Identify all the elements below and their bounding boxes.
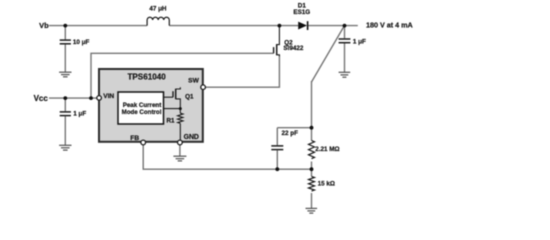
- svg-text:15 kΩ: 15 kΩ: [318, 180, 335, 187]
- svg-text:GND: GND: [184, 134, 199, 141]
- svg-text:R1: R1: [166, 118, 175, 125]
- svg-text:10 μF: 10 μF: [73, 39, 90, 46]
- svg-text:2.21 MΩ: 2.21 MΩ: [315, 146, 339, 153]
- svg-text:180 V at 4 mA: 180 V at 4 mA: [366, 21, 413, 30]
- svg-text:ES1G: ES1G: [293, 9, 310, 16]
- svg-text:Vb: Vb: [39, 21, 49, 30]
- svg-text:FB: FB: [130, 135, 139, 142]
- svg-text:Mode Control: Mode Control: [122, 109, 162, 116]
- svg-text:Peak Current: Peak Current: [123, 102, 162, 109]
- svg-text:22 pF: 22 pF: [282, 130, 299, 137]
- svg-text:Si9422: Si9422: [283, 45, 303, 52]
- svg-text:SW: SW: [188, 77, 199, 84]
- svg-text:1 μF: 1 μF: [353, 39, 366, 46]
- svg-text:1 μF: 1 μF: [73, 110, 86, 117]
- svg-text:47 μH: 47 μH: [149, 6, 167, 13]
- svg-text:Q1: Q1: [185, 94, 194, 101]
- svg-text:TPS61040: TPS61040: [127, 73, 166, 82]
- svg-text:Vcc: Vcc: [34, 94, 49, 103]
- svg-text:VIN: VIN: [103, 93, 114, 100]
